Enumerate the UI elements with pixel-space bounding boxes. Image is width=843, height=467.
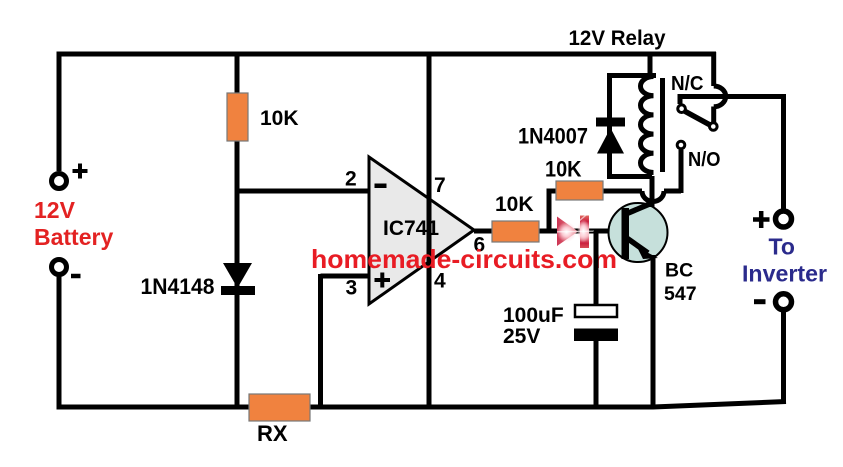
wire op-amp output <box>474 229 622 234</box>
wire 1N4007 bottom horizontal <box>607 174 652 179</box>
svg-text:1N4148: 1N4148 <box>141 274 215 299</box>
transistor Q1 BC547 <box>609 203 668 262</box>
wire capacitor branch top <box>594 231 599 305</box>
svg-text:25V: 25V <box>503 325 540 348</box>
svg-text:10K: 10K <box>260 107 299 130</box>
wire inverter positive vertical <box>781 94 786 209</box>
svg-text:N/O: N/O <box>688 149 721 171</box>
capacitor 100uF top plate <box>575 305 617 317</box>
svg-text:547: 547 <box>664 283 697 305</box>
relay N/C terminal <box>678 105 686 113</box>
relay N/O terminal <box>677 141 685 149</box>
wire op-amp pin3 vertical <box>318 274 323 407</box>
label plus input <box>375 273 391 288</box>
wire to N/O contact <box>664 189 681 194</box>
wire inverter negative vertical <box>781 311 786 404</box>
svg-text:10K: 10K <box>495 193 534 216</box>
svg-text:Inverter: Inverter <box>742 261 827 287</box>
wire op-amp pin2 horizontal <box>237 189 369 194</box>
capacitor 100uF bottom plate <box>574 329 618 342</box>
wire relay coil top drop <box>648 54 653 78</box>
resistor 10K (feedback to N/O) <box>556 181 603 200</box>
svg-text:2: 2 <box>345 168 357 191</box>
label battery + <box>73 164 88 179</box>
svg-text:100uF: 100uF <box>503 304 564 327</box>
svg-text:IC741: IC741 <box>383 216 439 240</box>
svg-text:RX: RX <box>257 421 288 446</box>
wire capacitor branch bottom <box>594 341 599 407</box>
wire pin7 pin4 vertical <box>427 54 432 407</box>
wire 1N4007 left vertical <box>607 76 612 178</box>
label minus input <box>375 184 387 189</box>
svg-text:homemade-circuits.com: homemade-circuits.com <box>311 244 617 274</box>
svg-text:Battery: Battery <box>34 224 113 250</box>
wire relay pole drop from rail <box>711 52 716 86</box>
svg-text:12V: 12V <box>34 197 76 223</box>
svg-text:BC: BC <box>665 260 693 282</box>
relay core bar <box>660 78 665 172</box>
wire pole hop over N/C wire <box>714 86 726 107</box>
wire hop under collector <box>642 191 664 202</box>
svg-text:7: 7 <box>434 174 446 197</box>
wire collector to coil vertical <box>650 176 655 207</box>
wire 10K / 1N4148 branch vertical <box>235 54 240 407</box>
diode 1N4007 <box>596 118 625 154</box>
wire pole below hop <box>711 107 716 123</box>
wire op-amp pin3 horizontal <box>321 274 370 279</box>
op-amp U1 IC741 <box>369 157 474 304</box>
battery - terminal <box>52 260 67 275</box>
label inverter - <box>754 299 766 304</box>
resistor 10K (output series) <box>492 221 539 242</box>
svg-text:3: 3 <box>346 277 358 300</box>
relay blade <box>684 111 712 126</box>
battery + terminal <box>52 174 67 189</box>
wire 1N4007 top horizontal <box>607 73 656 78</box>
svg-text:1N4007: 1N4007 <box>518 124 588 149</box>
LED D2 <box>557 213 595 249</box>
svg-text:N/C: N/C <box>671 73 704 95</box>
inverter - terminal <box>776 294 792 310</box>
wire N/O vertical <box>679 150 684 193</box>
svg-text:12V Relay: 12V Relay <box>569 26 666 50</box>
wire N/C to inverter <box>678 94 787 99</box>
wire battery negative vertical <box>57 275 62 407</box>
wire bottom rail <box>57 402 787 408</box>
svg-text:10K: 10K <box>545 157 582 182</box>
relay coil L1 <box>640 77 653 173</box>
resistor 10K (top left, vertical) <box>227 93 248 141</box>
wire emitter to bottom rail <box>651 255 656 407</box>
wire battery positive vertical <box>57 52 62 171</box>
diode 1N4148 <box>221 263 255 295</box>
svg-text:To: To <box>769 234 795 260</box>
inverter + terminal <box>776 211 792 227</box>
wire N/C stub <box>678 97 683 105</box>
wire feedback branch vertical <box>547 190 552 231</box>
wire top rail <box>57 52 717 57</box>
relay common pole terminal <box>710 123 718 131</box>
label inverter + <box>753 211 770 228</box>
resistor RX <box>249 394 310 421</box>
wire feedback branch horizontal <box>547 189 643 194</box>
label battery - <box>71 274 81 279</box>
